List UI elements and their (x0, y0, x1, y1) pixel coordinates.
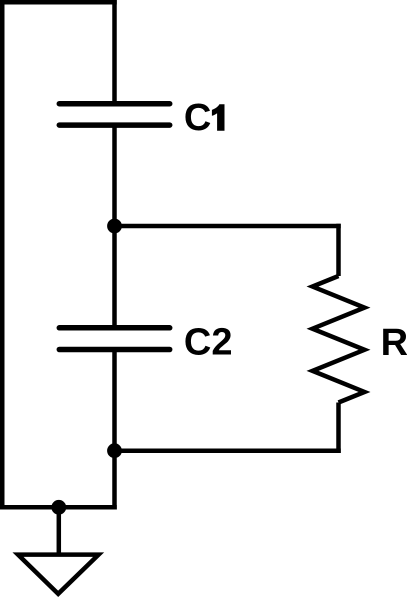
wire main vertical bottom segment (C2 to bottom rail) (112, 350, 117, 510)
svg-text:R: R (381, 322, 407, 364)
wire bottom horizontal (0, 505, 117, 510)
wire node1 to resistor top horizontal (115, 224, 341, 229)
wire main vertical middle segment (C1 to C2) (112, 125, 117, 328)
wire left vertical (0, 0, 5, 510)
wire ground stub vertical (57, 507, 62, 557)
wire right vertical below resistor (336, 402, 341, 452)
wire main vertical top segment (top rail to C1) (112, 0, 117, 104)
wire resistor bottom to node2 horizontal (115, 448, 341, 453)
node junction dot 1 (C1/C2/R top) (107, 219, 122, 234)
svg-text:C2: C2 (184, 322, 233, 364)
wire top horizontal (0, 0, 117, 5)
wire right vertical above resistor (336, 224, 341, 276)
label C1 (184, 97, 225, 139)
capacitor C2 (59, 328, 169, 350)
svg-text:C: C (184, 97, 211, 139)
node junction dot 3 (ground tap) (51, 500, 66, 515)
capacitor C1 (59, 104, 169, 125)
node junction dot 2 (C2/R bottom) (107, 443, 122, 458)
resistor R (313, 276, 365, 402)
ground (18, 555, 99, 594)
